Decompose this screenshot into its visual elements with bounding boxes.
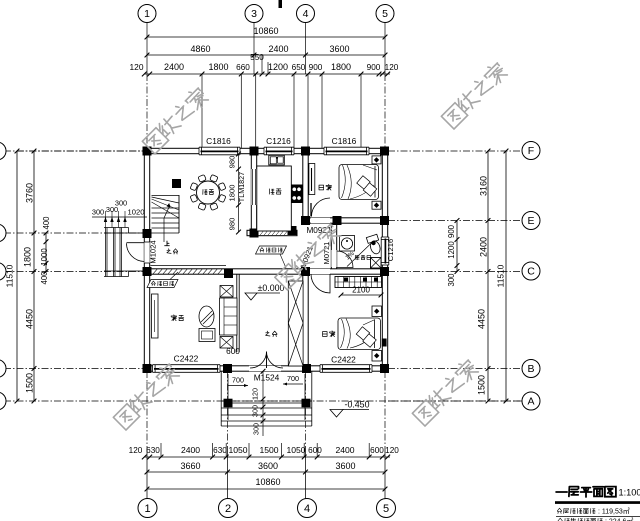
kitchen stove (292, 185, 303, 204)
label C1216 right wall (386, 239, 395, 261)
svg-text:1:100: 1:100 (619, 488, 640, 498)
window C1816 right in top wall (324, 147, 369, 155)
wall kitchen left axis3 (251, 154, 256, 232)
svg-text:3600: 3600 (329, 44, 349, 54)
svg-text:F: F (528, 145, 534, 157)
watermark 5 (411, 357, 480, 426)
dimension right total 11510 (496, 149, 509, 404)
wall kitchen bottom (247, 230, 297, 235)
staircase (152, 195, 180, 233)
grid axis vertical leaders top (147, 22, 385, 74)
svg-text:C1216: C1216 (266, 136, 291, 146)
dining table (190, 175, 226, 211)
svg-text:630: 630 (213, 446, 227, 455)
axis bubble 4 top (297, 5, 315, 23)
svg-text:10860: 10860 (253, 26, 278, 36)
svg-text:300: 300 (447, 273, 456, 287)
grid axis center lines (147, 74, 385, 401)
svg-text:4450: 4450 (477, 309, 487, 329)
dimension extension lines top (202, 74, 361, 148)
axis bubble F right (522, 142, 540, 160)
svg-text:400: 400 (42, 216, 51, 230)
label shang up (165, 241, 170, 246)
axis bubble A right (522, 392, 540, 410)
wall kitchen-bed1 axis4 (303, 154, 308, 224)
bedroom2 wardrobe (335, 277, 382, 288)
window C1216 in right wall (381, 237, 389, 265)
svg-text:1200: 1200 (268, 62, 288, 72)
svg-text:120: 120 (251, 388, 260, 400)
front porch columns (224, 399, 311, 408)
svg-text:3660: 3660 (180, 461, 200, 471)
structural columns (143, 147, 390, 374)
svg-text:120: 120 (130, 62, 144, 72)
exterior wall bottom (144, 366, 388, 371)
dimension row top total 10860 (145, 26, 388, 39)
sliding door TLM1827 (251, 169, 256, 205)
svg-text:3160: 3160 (479, 176, 489, 196)
column block dining (172, 179, 181, 188)
kitchen sink (269, 155, 285, 165)
dimension extension lines bottom (161, 443, 369, 457)
svg-text:2400: 2400 (181, 445, 200, 455)
svg-text:1800: 1800 (208, 62, 228, 72)
svg-text:700: 700 (287, 374, 299, 383)
title underline (555, 501, 640, 504)
label xuanguan rear (167, 249, 178, 254)
axis bubble 1 bottom (138, 499, 157, 518)
bedroom2 nightstands (372, 306, 382, 361)
bedroom1 bed (339, 165, 379, 200)
label M1524 (254, 373, 280, 383)
axis bubble A left edge (0, 392, 6, 410)
door opening M1524 in bottom wall (249, 366, 281, 371)
svg-text:660: 660 (236, 63, 250, 72)
svg-text:1: 1 (144, 8, 150, 20)
corridor ledge line (151, 265, 227, 267)
axis bubble D left edge (0, 224, 6, 242)
axis bubble 5 top (376, 5, 394, 23)
exterior wall top (144, 148, 388, 153)
axis bubble E right (522, 212, 540, 230)
svg-text:3600: 3600 (258, 461, 278, 471)
bedroom1 nightstands (372, 156, 381, 209)
svg-text:2100: 2100 (352, 286, 370, 295)
extension left (17, 150, 144, 152)
label woshi bedroom1 (319, 184, 331, 190)
label wood partition left (147, 272, 178, 288)
title text yiceng pingmiantu (556, 487, 616, 497)
svg-text:900: 900 (447, 224, 456, 238)
bathroom toilet (366, 234, 382, 255)
label C1816 left (206, 136, 231, 146)
svg-text:120: 120 (385, 63, 399, 72)
title area divider (556, 516, 640, 518)
watermark 2 (440, 60, 509, 129)
partition living-entry (237, 274, 239, 352)
svg-text:11510: 11510 (5, 264, 15, 287)
dimension 700 pair (228, 374, 303, 387)
svg-text:4860: 4860 (190, 44, 210, 54)
svg-text:1500: 1500 (25, 373, 35, 393)
label M0721 (322, 242, 331, 265)
axis bubble F left edge (0, 142, 6, 160)
entry door M1524 arcs (250, 352, 283, 369)
label weishengjian bathroom (355, 255, 371, 260)
svg-text:3600: 3600 (335, 461, 355, 471)
label TLM1827 (237, 172, 246, 202)
label M0921 (306, 226, 331, 235)
svg-text:M1024: M1024 (149, 240, 158, 263)
kitchen counter rect (257, 166, 292, 231)
svg-text:980: 980 (228, 156, 237, 169)
watermark 3 (273, 221, 342, 290)
svg-text:980: 980 (228, 218, 237, 231)
svg-text:600: 600 (370, 446, 384, 455)
label M1024 (149, 240, 158, 263)
window C1216 in top wall (264, 147, 294, 155)
grid axis horizontal leaders left (4, 151, 522, 401)
svg-text:5: 5 (383, 503, 389, 515)
axis bubble 5 bottom (377, 499, 396, 518)
svg-text:C2422: C2422 (174, 354, 199, 364)
dimension row bottom spans (145, 461, 388, 474)
svg-text:: 119,53㎡: : 119,53㎡ (598, 508, 630, 516)
title area line2 (558, 518, 633, 521)
label xuanguan entry (266, 331, 277, 337)
bedroom1 desk (309, 164, 315, 195)
exterior wall right (382, 148, 387, 371)
dimension row bottom total 10860 (145, 477, 388, 491)
axis bubble B right (522, 360, 540, 378)
svg-text:120: 120 (129, 446, 143, 455)
svg-text:M1524: M1524 (254, 373, 280, 383)
window C1816 left in top wall (199, 147, 240, 155)
svg-text:E: E (527, 215, 534, 227)
svg-text:1020: 1020 (128, 208, 145, 217)
svg-text:11510: 11510 (496, 264, 506, 287)
label canting dining (203, 190, 214, 195)
dimension left total 11510 (5, 149, 20, 404)
wall axis4 lower (303, 274, 308, 366)
svg-text:650: 650 (292, 63, 306, 72)
svg-text:300: 300 (252, 423, 261, 435)
label C1816 right (332, 136, 357, 146)
svg-text:900: 900 (309, 63, 323, 72)
svg-text:300: 300 (92, 208, 104, 217)
svg-text:3: 3 (251, 8, 257, 20)
svg-text:1050: 1050 (286, 445, 305, 455)
svg-text:1500: 1500 (477, 375, 487, 395)
label C2422 right (331, 355, 356, 365)
title area line1 (557, 508, 629, 516)
svg-text:400: 400 (40, 271, 49, 285)
svg-text:±0.000: ±0.000 (258, 283, 285, 293)
wall bedroom1 bottom row E (302, 218, 388, 223)
dimension row top spans (145, 44, 388, 57)
dimension row top details (130, 53, 399, 76)
svg-text:C1816: C1816 (206, 136, 231, 146)
svg-text:10860: 10860 (255, 477, 280, 487)
label woshi bedroom2 (323, 331, 335, 337)
svg-text:1800: 1800 (228, 185, 237, 202)
svg-text:A: A (527, 396, 534, 408)
door opening M0921 bed1 (311, 218, 330, 223)
svg-text:1500: 1500 (259, 445, 278, 455)
label C1216 top (266, 136, 291, 146)
label keting living (171, 315, 184, 321)
axis bubble B left edge (0, 360, 6, 378)
svg-text:3760: 3760 (25, 183, 35, 203)
svg-text:1800: 1800 (23, 247, 33, 267)
svg-text:120: 120 (385, 446, 399, 455)
level mark 0.000 (245, 283, 285, 300)
bathroom shaft (371, 258, 382, 269)
svg-text:4450: 4450 (25, 309, 35, 329)
axis bubble 1 top (138, 5, 156, 23)
bathroom washbasin (340, 236, 355, 252)
svg-text:1200: 1200 (447, 241, 456, 259)
door opening at C corridor (302, 269, 330, 274)
svg-text:300: 300 (115, 199, 127, 208)
dimension row bottom details (129, 445, 400, 459)
door opening M0721 (331, 250, 336, 267)
bedroom2 bed (338, 318, 381, 350)
dimension left spans (23, 149, 37, 404)
level mark -0.450 (330, 400, 370, 418)
svg-text:C: C (527, 266, 535, 278)
partition wood at C living (153, 269, 222, 274)
label slope (344, 242, 373, 267)
svg-text:4: 4 (303, 8, 309, 20)
axis bubble 2 bottom (219, 499, 238, 518)
axis bubble C right (522, 262, 540, 280)
label wood partition mid (256, 246, 287, 268)
stray mark top (279, 0, 283, 8)
wall pier right (382, 339, 387, 347)
door arc corridor (311, 274, 330, 293)
dimension 2100 (339, 286, 384, 298)
door arc M0721 (337, 251, 353, 268)
label chufang kitchen (269, 189, 281, 194)
wall row C (144, 269, 388, 274)
svg-text:C2422: C2422 (331, 355, 356, 365)
dimension left sub spans (40, 216, 51, 285)
svg-text:2400: 2400 (335, 445, 354, 455)
svg-text:700: 700 (232, 376, 244, 385)
stair up arrow (164, 203, 170, 242)
grid axis vertical leaders bottom (147, 371, 385, 499)
svg-text:1050: 1050 (228, 445, 247, 455)
living tv cabinet (152, 294, 159, 338)
watermark 1 (141, 85, 210, 154)
svg-text:1: 1 (144, 503, 150, 515)
title scale (619, 488, 640, 498)
door arc M0921 bed1 (311, 198, 330, 217)
left porch dims (92, 199, 147, 228)
svg-text:1800: 1800 (331, 62, 351, 72)
door arc M1024 (126, 242, 149, 263)
exterior wall left (144, 148, 149, 371)
window C2422 left in bottom wall (153, 365, 221, 373)
porch vertical dims (251, 369, 266, 436)
watermark 4 (112, 361, 181, 430)
door opening M1024 in left wall (144, 242, 149, 263)
svg-text:300: 300 (251, 405, 260, 417)
svg-text:C1816: C1816 (332, 136, 357, 146)
axis bubble 4 bottom (298, 499, 317, 518)
svg-text:: 224,6㎡: : 224,6㎡ (605, 518, 633, 521)
dimension kitchen door chain (228, 152, 241, 235)
svg-text:600: 600 (308, 446, 322, 455)
wall bath left (331, 224, 336, 269)
living sofa set (199, 286, 237, 349)
svg-text:2400: 2400 (164, 62, 184, 72)
svg-text:-0.450: -0.450 (345, 400, 370, 410)
entry closet (288, 281, 303, 366)
front porch steps (221, 371, 312, 426)
left porch steps (104, 228, 144, 277)
svg-text:C1216: C1216 (386, 239, 395, 261)
label M0921 corridor (299, 245, 315, 269)
svg-text:630: 630 (146, 446, 160, 455)
dimension right sub spans (447, 218, 459, 286)
svg-text:B: B (527, 363, 534, 375)
svg-text:2400: 2400 (479, 237, 489, 257)
dimension right spans (477, 149, 491, 404)
svg-text:2: 2 (225, 503, 231, 515)
grid axis horizontal leaders right (388, 151, 522, 401)
svg-text:900: 900 (367, 63, 381, 72)
svg-text:4: 4 (304, 503, 310, 515)
axis bubble C left edge (0, 263, 6, 281)
label C2422 left (174, 354, 199, 364)
label 600 opening (226, 347, 240, 356)
axis bubble 3 top (245, 5, 263, 23)
svg-text:1000: 1000 (40, 248, 49, 266)
svg-text:5: 5 (382, 8, 388, 20)
window C2422 right in bottom wall (320, 365, 372, 373)
svg-text:2400: 2400 (268, 44, 288, 54)
